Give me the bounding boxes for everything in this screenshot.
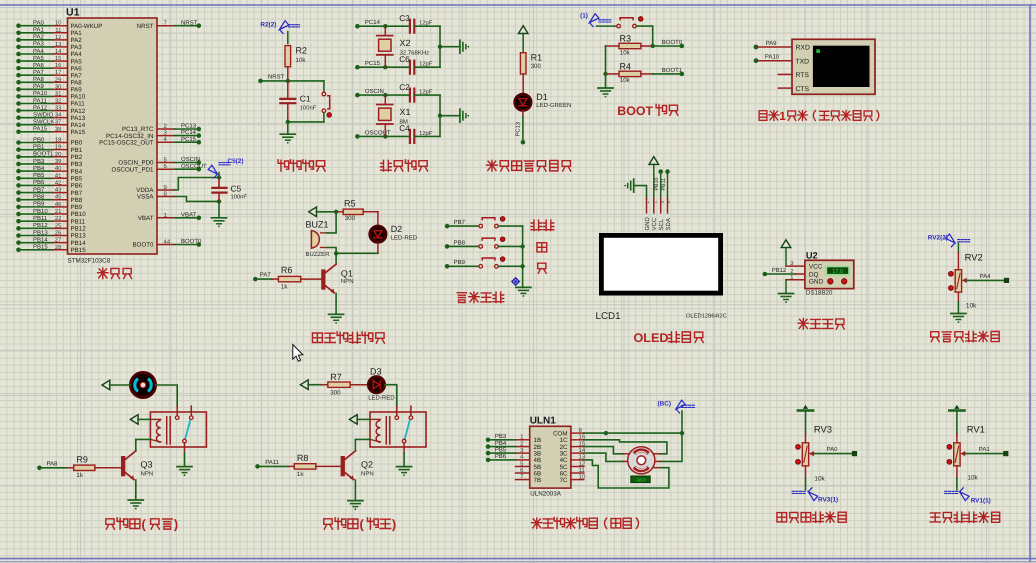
- LED D1 LED-GREEN: [515, 92, 572, 110]
- svg-text:30: 30: [55, 83, 62, 90]
- svg-text:NPN: NPN: [141, 471, 154, 478]
- svg-text:11: 11: [579, 467, 586, 474]
- svg-text:7C: 7C: [560, 477, 568, 484]
- svg-text:PB10: PB10: [71, 211, 87, 218]
- svg-text:10: 10: [55, 20, 62, 27]
- svg-text:RV2: RV2: [965, 252, 983, 263]
- svg-text:PB13: PB13: [33, 229, 48, 236]
- svg-text:RTS: RTS: [796, 72, 810, 79]
- wire PB8 to key: [445, 239, 479, 248]
- wire PA9 to U1 pin 30: [16, 83, 82, 93]
- svg-text:10k: 10k: [620, 49, 631, 56]
- svg-text:RV2(2): RV2(2): [928, 234, 948, 241]
- caption 独立按键: [457, 292, 503, 302]
- U1 right pin 44 BOOT0: [133, 238, 202, 249]
- wire PB4 to U1 pin 40: [16, 165, 83, 175]
- wire PC15 row: [355, 60, 408, 69]
- svg-text:100nF: 100nF: [300, 104, 317, 111]
- svg-text:PA12: PA12: [33, 104, 48, 111]
- ground below C5: [212, 201, 227, 227]
- svg-text:PB15: PB15: [33, 244, 48, 251]
- caption 声光报警电路: [313, 332, 385, 343]
- svg-text:1: 1: [790, 275, 793, 281]
- caption text 主芯片 (main chip): [98, 268, 132, 278]
- svg-text:19: 19: [55, 144, 62, 151]
- svg-text:SDA: SDA: [665, 218, 672, 230]
- transistor Q2 NPN: [341, 439, 374, 480]
- svg-text:D3: D3: [370, 366, 382, 376]
- power arrow left of relay coil: [130, 415, 150, 425]
- power arrow left of relay2 coil: [349, 415, 370, 425]
- svg-text:PA1: PA1: [71, 30, 83, 37]
- mouse cursor: [293, 345, 303, 362]
- svg-text:C2: C2: [399, 83, 410, 92]
- svg-text:RV1(1): RV1(1): [971, 498, 991, 505]
- svg-text:PA6: PA6: [71, 65, 83, 72]
- svg-text:PA7: PA7: [260, 272, 272, 279]
- svg-text:PB6: PB6: [33, 179, 45, 186]
- svg-text:PA2: PA2: [71, 37, 83, 44]
- svg-text:PB14: PB14: [33, 236, 48, 243]
- svg-text:17: 17: [55, 69, 62, 76]
- svg-text:PA3: PA3: [71, 44, 83, 51]
- svg-text:PB13: PB13: [71, 233, 87, 240]
- svg-text:42: 42: [55, 179, 62, 186]
- wire 3C to motor left bottom: [584, 453, 624, 461]
- wire RV2 bottom to ground: [951, 292, 977, 323]
- power symbol above RV3: [798, 405, 813, 434]
- svg-text:C6: C6: [399, 55, 410, 64]
- wire PB0 to U1 pin 18: [16, 136, 83, 146]
- wire PA5 to U1 pin 15: [16, 55, 82, 65]
- pin RTS stub: [778, 73, 792, 75]
- ground below R4: [598, 74, 613, 98]
- probe RV1(1): [945, 487, 991, 504]
- svg-text:Q1: Q1: [341, 269, 353, 279]
- svg-text:1: 1: [779, 109, 786, 123]
- svg-text:NRST: NRST: [137, 23, 154, 30]
- wire PB9 to U1 pin 46: [16, 201, 83, 211]
- svg-text:NRST: NRST: [181, 19, 198, 26]
- svg-text:PB9: PB9: [71, 204, 83, 211]
- wire PC14 row: [355, 19, 408, 28]
- transistor Q3 NPN: [121, 439, 153, 480]
- svg-text:300: 300: [345, 215, 356, 222]
- svg-text:PA4: PA4: [980, 273, 992, 280]
- svg-text:BUZ1: BUZ1: [306, 219, 329, 229]
- caption OLED显示屏: [634, 331, 704, 345]
- wire PA2 to U1 pin 12: [16, 34, 82, 44]
- ULN1 pin 14 3C: [560, 447, 586, 458]
- svg-text:R2(2): R2(2): [260, 22, 276, 29]
- svg-text:PB6: PB6: [495, 453, 507, 460]
- svg-text:C4: C4: [399, 124, 410, 133]
- svg-text:PB15: PB15: [71, 247, 87, 254]
- wire crystal X2 right bus: [438, 26, 460, 67]
- push button reset (vertical): [322, 81, 331, 122]
- svg-text:PA9: PA9: [71, 87, 83, 94]
- svg-text:10k: 10k: [620, 77, 631, 84]
- svg-text:BOOT: BOOT: [617, 104, 653, 118]
- svg-text:32: 32: [55, 98, 62, 105]
- svg-text:Q3: Q3: [141, 459, 153, 469]
- svg-text:OSCOUT_PD1: OSCOUT_PD1: [112, 166, 155, 173]
- wire key PB9 to common bus: [498, 265, 522, 267]
- svg-text:PA12: PA12: [71, 108, 86, 115]
- caption BOOT电路: [617, 104, 678, 118]
- svg-text:34: 34: [55, 112, 62, 119]
- ULN1 pin 5 5B: [516, 460, 542, 471]
- ULN1 pin 6 6B: [516, 467, 542, 478]
- wire PA4 to U1 pin 14: [16, 48, 82, 58]
- svg-text:PA5: PA5: [33, 55, 45, 62]
- wire BOOT0 net: [653, 39, 684, 48]
- svg-text:PA10: PA10: [33, 90, 48, 97]
- svg-text:PC13: PC13: [181, 123, 197, 130]
- svg-text:37: 37: [55, 119, 62, 126]
- probe (BC): [658, 400, 695, 433]
- ground right of X2: [460, 40, 469, 53]
- U1 right pin 9 VDDA: [136, 184, 174, 194]
- wire PB12 to U1 pin 25: [16, 222, 86, 232]
- svg-text:PB11: PB11: [71, 218, 86, 225]
- wire PB13 to U1 pin 26: [16, 229, 86, 239]
- svg-text:PB6: PB6: [71, 183, 83, 190]
- ground right of X1: [460, 109, 469, 122]
- svg-text:STM32F103C8: STM32F103C8: [68, 258, 111, 265]
- svg-text:D2: D2: [391, 224, 403, 234]
- power arrow left of R7: [300, 380, 321, 390]
- svg-text:LED-GREEN: LED-GREEN: [536, 102, 571, 109]
- svg-text:CTS: CTS: [796, 86, 810, 93]
- svg-text:PA0: PA0: [33, 20, 45, 27]
- wire COM bus: [584, 431, 684, 435]
- svg-text:C1: C1: [300, 94, 311, 104]
- svg-text:PC15: PC15: [365, 60, 381, 67]
- svg-text:VBAT: VBAT: [138, 215, 154, 222]
- svg-text:20: 20: [55, 151, 62, 158]
- svg-text:10k: 10k: [296, 57, 307, 64]
- svg-text:R1: R1: [531, 52, 543, 62]
- svg-text:PA8: PA8: [47, 460, 59, 467]
- wire NRST node: [258, 74, 324, 84]
- svg-text:10k: 10k: [967, 475, 978, 482]
- ground below Q2: [348, 480, 363, 510]
- svg-text:18: 18: [55, 137, 62, 144]
- resistor R3 10k: [606, 34, 653, 57]
- wire SWDIO to U1 pin 34: [16, 111, 86, 121]
- svg-text:PA9: PA9: [766, 40, 778, 47]
- svg-text:(BC): (BC): [658, 401, 672, 408]
- resistor R2 10k: [285, 46, 307, 81]
- svg-text:1k: 1k: [297, 471, 304, 478]
- svg-text:LED-RED: LED-RED: [391, 234, 418, 241]
- svg-text:-18.0: -18.0: [635, 477, 646, 482]
- probe RV2(2): [928, 234, 970, 253]
- svg-text:33: 33: [55, 105, 62, 112]
- svg-text:SWCLK: SWCLK: [33, 119, 54, 126]
- svg-text:VSSA: VSSA: [137, 194, 154, 201]
- wire PA6 to U1 pin 16: [16, 62, 82, 72]
- svg-text:3: 3: [790, 260, 793, 267]
- svg-text:PB7: PB7: [33, 186, 45, 193]
- U1 right pin 1 VBAT: [138, 211, 201, 222]
- svg-text:PA0-WKUP: PA0-WKUP: [71, 23, 103, 30]
- svg-text:C5(2): C5(2): [228, 158, 244, 165]
- svg-text:31: 31: [55, 90, 62, 97]
- wire D3 to relay contact: [385, 385, 397, 406]
- wire OSCIN row: [355, 88, 408, 97]
- svg-text:25: 25: [55, 222, 62, 229]
- svg-text:45: 45: [55, 194, 62, 201]
- ground below Q3: [128, 480, 143, 509]
- svg-text:OSCIN: OSCIN: [365, 88, 384, 95]
- svg-text:VBAT: VBAT: [181, 211, 197, 218]
- caption 光照亮度调节: [930, 512, 1000, 522]
- svg-text:DS18B20: DS18B20: [806, 290, 833, 297]
- op-amp U1 STM32F103C8 main chip body: [66, 7, 157, 265]
- svg-text:C3: C3: [399, 14, 410, 23]
- svg-text:R6: R6: [281, 265, 293, 275]
- wire PA10 to TXD: [754, 54, 792, 64]
- svg-text:12pF: 12pF: [419, 20, 433, 27]
- svg-text:X1: X1: [400, 107, 411, 117]
- wire RV3 top lead: [806, 423, 832, 442]
- svg-text:PA10: PA10: [71, 94, 86, 101]
- svg-text:7B: 7B: [534, 477, 542, 484]
- wire R3-R4 left bus: [603, 46, 607, 76]
- svg-text:R2: R2: [296, 46, 308, 56]
- wire buzzer top: [327, 212, 336, 233]
- svg-text:PC14: PC14: [181, 129, 197, 136]
- svg-text:PB12: PB12: [33, 222, 48, 229]
- wire PC13 below D1: [515, 111, 526, 145]
- svg-text:40: 40: [55, 165, 62, 172]
- svg-text:GND: GND: [809, 279, 824, 286]
- svg-text:PB8: PB8: [454, 239, 466, 246]
- svg-text:PB4: PB4: [71, 168, 83, 175]
- svg-text:DQ: DQ: [809, 271, 819, 278]
- svg-text:R3: R3: [620, 34, 632, 44]
- svg-text:Q2: Q2: [361, 459, 373, 469]
- svg-text:29: 29: [55, 76, 62, 83]
- ground below relay contact: [177, 453, 192, 476]
- svg-text:VCC: VCC: [809, 263, 823, 270]
- wire SCL (PB10): [654, 169, 663, 198]
- crystal X2 32.768KHz: [377, 26, 429, 67]
- svg-text:PB12: PB12: [71, 226, 87, 233]
- svg-text:RV3: RV3: [814, 423, 832, 434]
- svg-text:R4: R4: [620, 61, 632, 71]
- ULN1 pin 2 2B: [486, 440, 541, 451]
- svg-text:PC14: PC14: [365, 19, 381, 26]
- svg-text:PB9: PB9: [33, 201, 45, 208]
- wire 4C bottom loop to motor: [584, 460, 669, 488]
- svg-text:PB1: PB1: [33, 143, 45, 150]
- wire SDA (PB11): [661, 169, 670, 198]
- svg-text:LCD1: LCD1: [596, 311, 621, 322]
- svg-text:PA2: PA2: [33, 34, 45, 41]
- wire PB5 to U1 pin 41: [16, 172, 83, 182]
- svg-text:SCL: SCL: [658, 218, 665, 230]
- svg-text:BOOT0: BOOT0: [662, 39, 683, 46]
- capacitor C2 12pF: [399, 83, 440, 102]
- svg-text:PB5: PB5: [71, 175, 83, 182]
- wire PA0 to U1 pin 10: [16, 20, 102, 30]
- svg-text:PA6: PA6: [33, 62, 45, 69]
- svg-text:OSCOUT: OSCOUT: [181, 163, 207, 170]
- svg-text:12: 12: [55, 34, 62, 41]
- svg-text:C5: C5: [231, 184, 242, 194]
- svg-text:15: 15: [55, 55, 62, 62]
- svg-text:TXD: TXD: [796, 58, 810, 65]
- ground below keys: [516, 287, 531, 297]
- svg-text:(: (: [359, 517, 364, 532]
- svg-text:11: 11: [55, 27, 62, 34]
- caption 四项步进电机（雨棚）: [532, 518, 639, 530]
- pin CTS stub: [778, 87, 792, 89]
- potentiometer RV3 10k: [796, 443, 858, 466]
- ULN1 pin 1 1B: [486, 433, 541, 444]
- svg-text:39: 39: [55, 158, 62, 165]
- probe R2(2): [260, 21, 299, 44]
- push button key PB8: [479, 237, 505, 248]
- relay RL2 (light): [370, 406, 426, 453]
- svg-text:RV3(1): RV3(1): [818, 497, 838, 504]
- svg-text:21: 21: [55, 208, 62, 215]
- svg-text:12: 12: [579, 460, 586, 467]
- caption 串口1窗口（模拟手机端）: [759, 109, 879, 123]
- ULN1 pin 4 4B: [486, 453, 541, 464]
- capacitor C3 12pF: [399, 14, 440, 33]
- svg-text:RV1: RV1: [967, 423, 985, 434]
- resistor R4 10k: [606, 61, 653, 84]
- svg-text:43: 43: [55, 187, 62, 194]
- driver IC ULN1 ULN2003A body: [530, 416, 571, 498]
- svg-text:PA7: PA7: [71, 72, 83, 79]
- relay RL1 (watering): [150, 406, 206, 453]
- svg-text:NPN: NPN: [361, 471, 374, 478]
- caption 复位电路 (reset circuit): [278, 160, 325, 171]
- svg-text:300: 300: [330, 389, 341, 396]
- svg-text:PB11: PB11: [661, 178, 667, 191]
- svg-text:PB0: PB0: [71, 140, 83, 147]
- svg-text:PB2: PB2: [71, 154, 83, 161]
- wire PB10 to U1 pin 21: [16, 208, 86, 218]
- power arrow for U2 VCC: [781, 240, 805, 266]
- resistor R5 300: [336, 199, 378, 223]
- caption 土壤湿度调节: [931, 331, 1000, 341]
- wire motor to relay contact: [156, 385, 178, 406]
- ground below Q1: [329, 293, 344, 323]
- svg-text:300: 300: [531, 63, 542, 70]
- svg-text:12pF: 12pF: [419, 61, 433, 68]
- svg-text:PB9: PB9: [454, 259, 466, 266]
- wire PA8 to U1 pin 29: [16, 76, 82, 86]
- svg-text:PA15: PA15: [33, 126, 48, 133]
- wire crystal X1 right bus: [438, 95, 460, 136]
- wire PA11 to U1 pin 32: [16, 97, 85, 107]
- potentiometer RV2 10k: [949, 270, 1010, 292]
- wire RV3 bottom to probe: [806, 466, 826, 490]
- svg-text:BOOT0: BOOT0: [133, 242, 155, 249]
- node marker (blue diamond): [512, 278, 520, 286]
- wire SWCLK to U1 pin 37: [16, 119, 86, 129]
- ULN1 pin 13 4C: [560, 454, 586, 465]
- caption 测温模块: [798, 319, 844, 329]
- svg-text:3: 3: [659, 201, 664, 204]
- svg-text:PC13: PC13: [515, 122, 522, 137]
- svg-text:41: 41: [55, 172, 62, 179]
- svg-text:(1): (1): [580, 13, 588, 20]
- svg-text:PB7: PB7: [454, 219, 466, 226]
- svg-text:PB1: PB1: [71, 147, 83, 154]
- svg-text:D1: D1: [536, 92, 548, 102]
- buzzer BUZ1: [306, 219, 331, 258]
- push button key PB9: [479, 257, 505, 268]
- svg-text:46: 46: [55, 201, 62, 208]
- wire 1C to motor right top: [584, 440, 667, 454]
- svg-text:RXD: RXD: [796, 45, 810, 52]
- wire PA10 to U1 pin 31: [16, 90, 86, 100]
- svg-text:PA1: PA1: [979, 446, 991, 453]
- wire BOOT1 to U1 pin 20: [16, 151, 83, 161]
- svg-text:SWDIO: SWDIO: [33, 111, 54, 118]
- svg-text:ULN2003A: ULN2003A: [530, 491, 562, 498]
- svg-text:PA4: PA4: [33, 48, 45, 55]
- svg-text:PB10: PB10: [33, 208, 48, 215]
- transistor Q1 NPN: [321, 264, 353, 293]
- svg-text:22: 22: [55, 215, 62, 222]
- wire buzzer bottom / collector node: [327, 248, 378, 265]
- U1 right pin 8 VSSA: [137, 191, 175, 201]
- caption 设置 加 减: [531, 220, 554, 230]
- wire relay coil to Q3 collector: [136, 438, 151, 440]
- caption 继电器(补光): [324, 517, 396, 532]
- svg-text:10k: 10k: [966, 303, 977, 310]
- resistor R6 1k / wire PA7: [253, 265, 321, 290]
- power arrow left of R5: [309, 207, 339, 217]
- LCD1 OLED12864I2C screen: [596, 235, 727, 322]
- svg-text:BOOT1: BOOT1: [662, 67, 683, 74]
- svg-text:10k: 10k: [814, 475, 825, 482]
- svg-text:12pF: 12pF: [419, 130, 433, 137]
- ULN1 pin 7 7B: [516, 473, 542, 484]
- wire RV2 top lead: [958, 252, 982, 270]
- push button key PB7: [479, 217, 505, 228]
- svg-text:OSCOUT: OSCOUT: [365, 129, 391, 136]
- svg-text:PB0: PB0: [33, 136, 45, 143]
- svg-text:U1: U1: [66, 7, 80, 19]
- U1 right pin 4 PC15-OSC32_OUT: [99, 136, 201, 147]
- svg-text:10: 10: [579, 473, 586, 480]
- svg-text:PA11: PA11: [71, 101, 86, 108]
- resistor R9 1k / wire PA8: [37, 455, 121, 479]
- svg-text:OSCIN: OSCIN: [181, 156, 200, 163]
- svg-text:BOOT0: BOOT0: [181, 238, 202, 245]
- wire PB7 to U1 pin 43: [16, 186, 83, 196]
- svg-text:44: 44: [164, 239, 171, 246]
- svg-text:PB3: PB3: [33, 158, 45, 165]
- probe C5(2): [208, 158, 243, 179]
- LED D2 LED-RED: [370, 212, 418, 254]
- svg-text:PB8: PB8: [33, 194, 45, 201]
- power arrow above R1: [518, 26, 528, 53]
- wire PB11 to U1 pin 22: [16, 215, 86, 225]
- svg-text:R8: R8: [297, 453, 309, 463]
- wire PB14 to U1 pin 27: [16, 236, 86, 246]
- svg-text:PB5: PB5: [495, 446, 507, 453]
